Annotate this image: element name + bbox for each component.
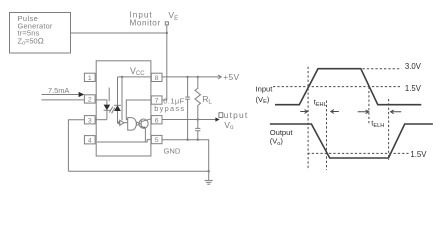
pin 6 (151, 116, 162, 125)
arrow tELH right (391, 110, 402, 114)
pin 8 (151, 73, 162, 82)
svg-text:2: 2 (88, 97, 92, 104)
wire VCC bias drop (121, 77, 123, 120)
svg-text:(Vo): (Vo) (270, 137, 284, 147)
current arrow 7.5mA (42, 86, 85, 97)
waveform output Vo trace (270, 124, 433, 158)
pin 7 (151, 96, 162, 105)
wire internal ground bus (97, 140, 151, 142)
3.0V dashed level (363, 68, 402, 70)
pin 3 (84, 116, 95, 125)
wire input to pin 2 (42, 99, 85, 101)
label Output Vo (224, 110, 249, 131)
svg-text:8: 8 (155, 75, 159, 82)
wire pin3 internal (95, 119, 107, 121)
svg-text:+5V: +5V (223, 72, 239, 82)
svg-text:1: 1 (88, 75, 92, 82)
svg-text:3.0V: 3.0V (405, 62, 422, 71)
svg-text:Input: Input (256, 85, 274, 94)
wire ground rail (162, 140, 209, 172)
arrow tELH left (358, 110, 369, 114)
wire pin3 external return (68, 120, 84, 172)
amplifier buffer (118, 120, 128, 125)
svg-text:(VE): (VE) (256, 95, 270, 105)
light coupling arrows (109, 88, 115, 114)
capacitor C1 bypass (185, 76, 190, 140)
dashed vertical input falling edge (368, 87, 370, 124)
svg-text:6: 6 (155, 117, 159, 124)
op-amp U1 IC body (96, 61, 151, 156)
svg-text:5: 5 (155, 137, 159, 144)
node VE terminal (165, 22, 168, 34)
svg-text:GND: GND (164, 147, 181, 156)
svg-text:7.5mA: 7.5mA (48, 86, 69, 95)
node +5V arrow (218, 75, 221, 79)
arrow tEHL left (300, 110, 307, 114)
svg-text:Monitor: Monitor (130, 18, 161, 27)
wire bottom return (68, 170, 208, 172)
label 0.1uF bypass (154, 96, 185, 113)
label Input Monitor (130, 11, 161, 28)
svg-text:3: 3 (88, 117, 92, 124)
node VCC junction (121, 76, 123, 78)
node output terminal (219, 113, 223, 118)
pulse generator box (10, 13, 71, 54)
wire pin7 enable internal (126, 100, 151, 120)
wire pin7 stub (162, 99, 167, 101)
resistor RL (195, 76, 201, 120)
label Input (VE) (256, 85, 274, 106)
pin 4 (84, 136, 95, 145)
svg-text:1.5V: 1.5V (410, 150, 427, 159)
arrow tEHL right (331, 110, 339, 114)
gate U1b (128, 118, 139, 131)
waveform input VE trace (275, 69, 421, 105)
photodiode D2 (114, 77, 121, 123)
wire VE vertical to pin 7 (166, 25, 168, 100)
LED D1 (104, 105, 111, 120)
dashed vertical output rising edge (388, 99, 390, 160)
transistor Q1 (139, 119, 151, 142)
1.5V output dashed level (308, 152, 409, 154)
wire VCC internal rail (118, 76, 152, 78)
dashed vertical output falling edge (326, 101, 328, 171)
svg-text:1.5V: 1.5V (405, 84, 422, 93)
label Output (Vo) (270, 128, 294, 147)
capacitor C2 load (186, 120, 200, 141)
wire pin2 to LED anode (95, 100, 107, 105)
svg-text:bypass: bypass (154, 104, 185, 113)
pin 2 (84, 95, 95, 104)
svg-text:Zo=50Ω: Zo=50Ω (18, 36, 44, 46)
svg-text:4: 4 (88, 137, 92, 144)
wire output pin6 (162, 119, 219, 121)
wire +5V rail (162, 76, 221, 78)
wire pulse generator to input monitor node (71, 32, 167, 34)
svg-text:utput: utput (224, 110, 249, 120)
pin 5 (151, 135, 162, 144)
pin 1 (84, 73, 95, 82)
1.5V input dashed level (273, 86, 402, 88)
ground (205, 180, 213, 184)
dashed vertical input rising edge (307, 67, 309, 170)
